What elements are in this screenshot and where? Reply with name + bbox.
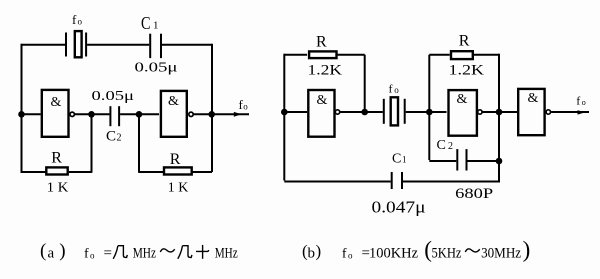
NAND gate U2 of circuit (a) [161,91,187,137]
wire: R3 right vertical riser [364,55,366,112]
svg-text:f: f [576,94,580,108]
capacitor C4 (680P) of circuit (b) [457,149,466,170]
resistor R1 (1K) of circuit (a) [46,167,67,174]
output bubble of gate U4 [478,110,482,114]
wire: gate U4 output to gate U5 input [483,111,518,113]
wire: C4 row left lead from middle vertical [429,160,456,162]
wire: gate U1 output to C2 [75,113,110,115]
svg-text:=: = [104,246,112,262]
caption (a) text [40,240,238,261]
wire: gate U5 output to f0 arrow [551,111,589,113]
wire: R2 left lead [139,171,163,173]
NAND gate U5 of circuit (b) [518,89,544,135]
wire: C1 to right vertical [162,44,212,46]
svg-text:1: 1 [153,20,159,32]
junction node at gate U2 input [136,111,143,118]
wire: R1 riser to gate U1 output junction [91,114,93,173]
wire: R2 right lead [192,171,212,173]
svg-text:o: o [348,251,353,261]
svg-text:(: ( [40,240,46,261]
label f0 above crystal Y1 [72,12,83,27]
CJK glyph SHI (ten) in caption (a) [196,245,209,259]
output bubble of gate U2 [189,112,193,116]
junction node at gate U4 output [496,109,503,116]
wire: R4 right lead [474,54,499,56]
svg-text:f: f [84,247,89,262]
capacitor C2 of circuit (a) [110,106,119,126]
label C2 of circuit (b) [437,138,454,153]
junction node at gate U1 output [88,111,95,118]
svg-text:1.2K: 1.2K [449,62,485,78]
wire: C2 to gate U2 input [120,113,159,115]
wire: circuit (a) left vertical [21,44,23,173]
svg-text:o: o [582,98,586,107]
wire: C3 row left lead [284,181,390,183]
svg-text:1: 1 [402,155,407,165]
wire: input to gate U1 [22,113,41,115]
svg-text:&: & [168,94,179,109]
svg-text:C: C [392,152,401,167]
wire: circuit (b) middle vertical (R4 left / C4 left) [428,55,430,160]
svg-text:R: R [316,34,327,51]
resistor R2 (1K) of circuit (a) [164,167,192,174]
wide tilde glyph in caption (b) [465,249,480,252]
output bubble of gate U1 [70,112,74,116]
wire: circuit (b) R3 loop top left lead [284,54,307,56]
output bubble of gate U3 [335,110,339,114]
wire: input to gate U3 [284,111,307,113]
junction node at circuit (a) output [208,111,215,118]
svg-text:): ) [316,242,322,261]
wire: C3 right lead to right vertical [403,181,500,183]
svg-text:b: b [308,246,316,262]
label C2 of circuit (a) [106,129,122,145]
svg-text:1.2K: 1.2K [308,62,343,78]
label f0 above crystal Y2 [389,82,400,96]
svg-text:&: & [51,95,62,110]
wire: gate U2 output to f0 arrow [194,113,249,115]
wire: R4 left lead [429,54,449,56]
svg-text:0.05μ: 0.05μ [92,89,135,104]
svg-text:a: a [48,246,55,262]
wire: circuit (b) left vertical [283,54,285,181]
svg-text:R: R [170,151,181,168]
resistor R4 (1.2K) of circuit (b) [451,51,473,59]
svg-text:f: f [342,247,347,262]
svg-text:30MHz: 30MHz [481,246,521,262]
capacitor C3 (0.047u) of circuit (b) [392,172,402,189]
wire: crystal to C1 [87,44,149,46]
wire: gate U2 input vertical to R2 [138,114,140,173]
svg-text:): ) [523,237,531,262]
wire: gate U1 resistor loop left vertical [22,171,46,173]
NAND gate U3 of circuit (b) [308,90,334,137]
svg-text:0.047μ: 0.047μ [372,198,426,217]
svg-text:o: o [394,85,399,95]
label C1 of circuit (a) [141,13,159,33]
wire: circuit (a) right vertical [211,44,213,172]
junction node at gate U3 input [281,109,288,116]
svg-text:2: 2 [117,133,122,144]
wire: crystal to gate U4 input [406,111,447,113]
svg-text:MHz: MHz [133,245,157,261]
resistor R3 (1.2K) of circuit (b) [309,51,336,58]
output arrowhead f0 of circuit (a) [234,112,242,117]
crystal Y2 (f0) of circuit (b) [384,97,405,125]
label f0 at circuit (b) output [576,94,586,108]
crystal Y1 (f0) of circuit (a) [66,31,86,57]
svg-text:2: 2 [448,141,453,152]
svg-text:f: f [72,12,77,27]
svg-text:1 K: 1 K [168,181,189,196]
label f0 at circuit (a) output [239,97,249,112]
NAND gate U1 of circuit (a) [42,90,69,137]
capacitor C1 of circuit (a) [150,34,161,58]
wire: R3 right lead [338,54,365,56]
svg-text:o: o [78,17,83,27]
junction node at C4 right / right vertical [496,158,503,165]
svg-text:C: C [106,129,116,145]
wire: C4 right lead to right vertical [468,160,500,162]
svg-text:100KHz: 100KHz [369,246,418,262]
svg-text:5KHz: 5KHz [432,246,462,262]
CJK glyph JI (tens) in caption (a) [178,246,192,259]
label C1 of circuit (b) [392,152,407,167]
svg-text:f: f [389,82,393,96]
svg-text:o: o [243,102,248,112]
junction node at gate U4 input [426,109,433,116]
svg-text:o: o [90,251,95,261]
junction node at gate U3 output [361,109,368,116]
svg-text:&: & [457,92,468,107]
svg-text:C: C [141,13,151,33]
output arrowhead f0 of circuit (b) [578,110,586,114]
junction node at gate U1 input [18,111,25,118]
svg-text:&: & [317,93,328,108]
svg-text:MHz: MHz [215,245,238,261]
wire: resistor R1 to vertical riser [69,171,92,173]
svg-text:680P: 680P [455,186,493,202]
CJK glyph JI (several) in caption (a) [113,246,127,259]
svg-text:R: R [51,150,62,167]
svg-text:1 K: 1 K [47,181,69,196]
svg-text:): ) [59,240,65,261]
NAND gate U4 of circuit (b) [449,90,477,136]
svg-text:C: C [437,138,446,153]
wire: gate U3 output to crystal [340,111,383,113]
wire: circuit (b) right vertical (R4/C3/C4 common) [498,54,500,181]
wire: circuit (a) top loop horizontal left segment [22,44,66,46]
wide tilde glyph in caption (a) [160,249,175,252]
caption (b) text [302,237,530,262]
output bubble of gate U5 [546,110,550,114]
svg-text:&: & [528,91,539,106]
svg-text:R: R [459,33,470,50]
svg-text:0.05μ: 0.05μ [135,61,178,76]
